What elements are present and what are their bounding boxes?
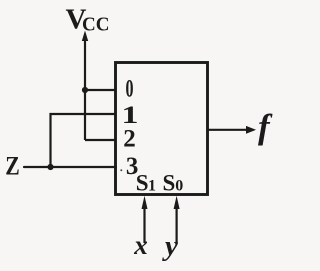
speck before pin 3 (120, 169, 122, 171)
arrowhead select y (174, 196, 180, 209)
svg-text:Z: Z (5, 152, 19, 181)
svg-text:0: 0 (175, 178, 183, 195)
wire input 2 (85, 139, 116, 141)
node junction on Z wire (47, 164, 53, 170)
arrowhead Vcc (82, 31, 88, 42)
svg-text:2: 2 (123, 126, 136, 153)
wire input 0 (85, 89, 116, 91)
svg-text:1: 1 (148, 178, 156, 195)
wire Vcc vertical (84, 38, 86, 140)
node junction on Vcc line at input 0 (82, 87, 88, 93)
wire output f (209, 129, 248, 131)
wire select S1 (x) (143, 207, 145, 243)
wire Z to input 3 (24, 166, 116, 168)
svg-text:S: S (136, 171, 149, 196)
wire input 1 with vertical branch (51, 114, 117, 167)
svg-text:y: y (162, 230, 178, 262)
svg-text:CC: CC (82, 14, 110, 36)
svg-text:x: x (133, 230, 148, 260)
wire select S0 (y) (176, 207, 178, 243)
mux box U1 (116, 63, 208, 195)
arrowhead output f (246, 126, 256, 134)
arrowhead select x (142, 196, 148, 209)
svg-text:0: 0 (126, 76, 134, 103)
svg-text:S: S (163, 171, 176, 196)
